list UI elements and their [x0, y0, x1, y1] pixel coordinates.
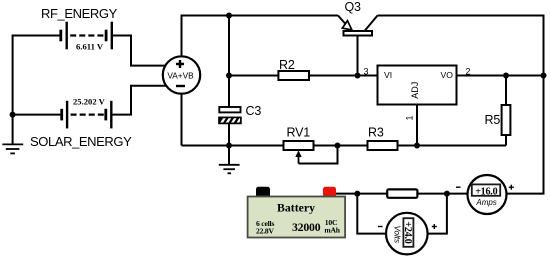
svg-text:Q3: Q3 — [345, 0, 362, 14]
svg-text:32000: 32000 — [292, 220, 321, 234]
svg-text:C3: C3 — [246, 104, 262, 118]
source V1 VA+VB — [163, 56, 200, 93]
junction node (bottom row / wiper) — [335, 143, 341, 149]
junction node (battery row / volts branch) — [354, 191, 360, 197]
svg-text:R5: R5 — [485, 113, 501, 127]
svg-text:25.202 V: 25.202 V — [73, 96, 106, 106]
wire left rail and battery1 left lead — [13, 36, 61, 144]
svg-text:1: 1 — [405, 115, 415, 120]
wire RV1 wiper to right terminal — [299, 146, 338, 164]
wire VA+VB top lead — [182, 16, 339, 76]
wire C3 column upper — [228, 16, 230, 108]
wire R5 bottom lead — [505, 135, 507, 146]
ground (middle) — [219, 165, 240, 174]
junction node (bottom row / C3 column / ground) — [226, 143, 232, 149]
svg-text:VA+VB: VA+VB — [167, 71, 194, 81]
svg-text:RV1: RV1 — [287, 126, 311, 140]
svg-text:mAh: mAh — [324, 226, 340, 235]
label voltmeter plus — [432, 224, 437, 229]
svg-text:SOLAR_ENERGY: SOLAR_ENERGY — [30, 134, 132, 149]
junction node (R2 row / C3 column) — [226, 73, 232, 79]
junction node (bottom row / ADJ pin) — [414, 143, 420, 149]
wire Q3 emitter diagonal — [338, 16, 346, 25]
label voltmeter minus — [378, 226, 383, 228]
junction node (battery row / volts return) — [444, 191, 450, 197]
wire bottom row (ground / ADJ net) — [182, 145, 507, 147]
battery BAT1 (RF_ENERGY cell stack) — [61, 22, 112, 50]
fuse F1 — [387, 189, 417, 197]
junction node (R2 row / Q3 base) — [355, 73, 361, 79]
battery BAT2 (SOLAR_ENERGY cell stack) — [62, 101, 112, 129]
junction node (VO row / R5) — [503, 73, 509, 79]
junction node (left rail / battery2) — [10, 112, 16, 118]
transistor Q3 — [338, 16, 378, 76]
ground (left, under SOLAR_ENERGY rail) — [2, 144, 23, 153]
resistor R2 — [278, 71, 309, 80]
regulator U1 (VI/VO/ADJ) — [378, 66, 457, 105]
wire C3 column lower — [228, 123, 230, 145]
wire battery2 right lead — [111, 86, 178, 115]
svg-text:Volts: Volts — [393, 225, 402, 243]
wire top rail right — [378, 16, 544, 194]
wire Q3 collector diagonal — [365, 16, 378, 32]
wire ADJ pin lead — [416, 105, 418, 146]
resistor R5 (vertical) — [502, 105, 511, 135]
wire ground stub — [228, 146, 230, 165]
junction node (VO row / right rail) — [541, 73, 547, 79]
svg-text:22.8V: 22.8V — [256, 226, 274, 235]
svg-text:3: 3 — [364, 67, 369, 77]
wire R5 top lead — [505, 76, 507, 106]
wire volts branch right — [407, 194, 447, 234]
battery BT1 (green block) — [248, 187, 346, 238]
wire VO row — [457, 75, 544, 77]
svg-text:6.611 V: 6.611 V — [76, 42, 104, 52]
wire volts branch left — [357, 194, 406, 234]
label ammeter plus — [509, 185, 514, 190]
Q3 emitter arrow — [342, 21, 352, 30]
svg-text:VI: VI — [384, 70, 392, 80]
wire VA+VB bottom lead — [181, 75, 183, 146]
junction node (top rail / C3 column) — [226, 13, 232, 19]
wire Q3 base lead — [357, 36, 359, 76]
svg-text:+24.0: +24.0 — [402, 221, 413, 243]
svg-text:+16.0: +16.0 — [475, 186, 497, 197]
potentiometer RV1 — [284, 141, 314, 164]
wire battery1 right lead — [112, 36, 178, 66]
svg-text:ADJ: ADJ — [410, 82, 420, 99]
RV1 wiper arrow — [298, 154, 300, 164]
wire R2 row — [229, 75, 378, 77]
svg-text:Amps: Amps — [475, 198, 496, 207]
label ammeter minus — [456, 186, 461, 188]
svg-text:Battery: Battery — [277, 201, 315, 215]
svg-text:R3: R3 — [368, 126, 384, 140]
capacitor C3 — [219, 107, 243, 126]
wire battery output row — [336, 193, 467, 195]
svg-text:R2: R2 — [279, 58, 295, 72]
ammeter (+16.0 Amps) — [468, 175, 507, 214]
wire battery2 left lead — [13, 114, 62, 116]
svg-text:VO: VO — [441, 70, 454, 80]
resistor R3 — [368, 141, 398, 150]
voltmeter (+24.0 Volts) — [386, 213, 428, 255]
svg-text:RF_ENERGY: RF_ENERGY — [41, 6, 118, 21]
Q3 base bar — [344, 31, 373, 36]
